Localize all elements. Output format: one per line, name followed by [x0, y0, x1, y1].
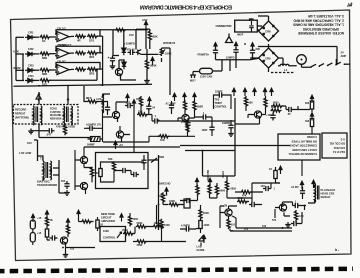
wire row2 stub	[16, 54, 24, 81]
notes block (upside down text, top right)	[293, 14, 344, 35]
wire C34	[187, 118, 189, 131]
svg-text:100K: 100K	[103, 230, 109, 233]
wire stage out	[147, 115, 235, 122]
wire R13 down to ground	[146, 49, 148, 81]
svg-text:ECHOPLEX EP-4 SCHEMATIC DIAGRA: ECHOPLEX EP-4 SCHEMATIC DIAGRAM	[140, 3, 232, 9]
resistor R23	[272, 104, 283, 107]
svg-text:680R: 680R	[197, 106, 203, 109]
svg-text:NEW TONE: NEW TONE	[101, 212, 115, 216]
power arrow G2	[310, 113, 313, 121]
ground G5	[285, 222, 291, 227]
svg-text:500K: 500K	[203, 212, 209, 215]
power arrow +15 E1	[126, 94, 129, 102]
svg-text:47K: 47K	[242, 195, 247, 198]
resistor R12	[148, 30, 151, 41]
power arrow E6	[132, 100, 135, 108]
svg-text:+15MFD: +15MFD	[124, 42, 135, 46]
wire riser 2V AMP	[335, 59, 337, 65]
wire row2 out	[97, 52, 103, 54]
transistor Q11	[80, 182, 87, 189]
svg-text:A4 MV: A4 MV	[291, 186, 299, 189]
transformer T2 right winding	[50, 161, 51, 173]
svg-text:10MFD: 10MFD	[226, 56, 235, 60]
capacitor C18	[120, 168, 128, 173]
feedback box TR3	[214, 95, 232, 109]
svg-text:470-40: 470-40	[127, 48, 136, 52]
wire row3 mid	[33, 69, 39, 71]
resistor R8	[40, 68, 51, 71]
svg-text:152: 152	[129, 33, 134, 37]
svg-text:CR1: CR1	[28, 31, 34, 35]
wire pot down / long vertical	[162, 48, 171, 95]
capacitor C30	[263, 186, 271, 191]
svg-text:68B: 68B	[42, 72, 47, 76]
power arrow J3	[66, 219, 69, 227]
capacitor C3 inside box	[249, 19, 253, 32]
wire risers to divider	[39, 86, 68, 105]
wire verticals from bus	[203, 150, 236, 176]
svg-text:A-2: A-2	[340, 137, 345, 141]
transistor Q6	[182, 114, 189, 121]
resistor R45	[294, 210, 297, 221]
svg-text:OR SIMILAR TYPES: OR SIMILAR TYPES	[291, 139, 317, 143]
node dot on divider	[67, 97, 70, 100]
svg-text:HEAD CR2: HEAD CR2	[321, 192, 335, 196]
power arrow C5c	[251, 43, 254, 51]
bridge rectifier CR9	[259, 48, 279, 68]
relay box K1	[235, 20, 258, 32]
playback head coil	[315, 184, 316, 196]
wire fuse leads	[190, 60, 222, 78]
resistor R13	[145, 59, 148, 70]
svg-text:56K: 56K	[108, 158, 113, 161]
svg-text:250K: 250K	[137, 244, 143, 247]
power arrow G1	[310, 95, 313, 103]
power arrow E2	[173, 93, 176, 101]
capacitor C13	[228, 123, 233, 131]
resistor R31 (boxed)	[45, 229, 48, 237]
svg-text:100K: 100K	[204, 224, 210, 227]
wire I stubs	[163, 193, 184, 205]
resistor R27	[112, 161, 115, 172]
notes box2 text	[329, 137, 345, 154]
svg-text:A1 16MF: A1 16MF	[166, 103, 177, 106]
transistor Q10	[80, 156, 87, 163]
svg-text:4.7K: 4.7K	[13, 50, 19, 54]
svg-text:GUIDE: GUIDE	[197, 249, 205, 252]
resistor R3	[87, 35, 98, 38]
notes box 2 (key)	[322, 133, 347, 158]
power arrow I1	[114, 141, 117, 149]
svg-text:300: 300	[305, 102, 310, 105]
svg-text:REPEAT: REPEAT	[15, 112, 26, 116]
resistor R20	[271, 109, 282, 112]
svg-text:CONTROL: CONTROL	[103, 237, 116, 240]
svg-text:200: 200	[256, 47, 261, 51]
transistor Q12	[60, 237, 67, 244]
motor M1	[297, 55, 307, 65]
wire row4 mid	[33, 79, 39, 81]
svg-text:1.5K 1/2W: 1.5K 1/2W	[19, 151, 32, 155]
resistor R52	[183, 100, 186, 111]
resistor R7	[87, 51, 98, 54]
resistor R37	[136, 225, 147, 228]
svg-text:470MFD+: 470MFD+	[197, 53, 210, 57]
resistor R54	[186, 122, 189, 133]
ground G2	[144, 78, 150, 83]
transformer T1 core	[36, 107, 38, 123]
node bus join	[96, 68, 97, 69]
svg-text:10MFD: 10MFD	[222, 122, 230, 125]
wire R21/R22	[298, 106, 312, 134]
power rail to trap box	[133, 101, 135, 153]
capacitor C9	[152, 118, 160, 123]
wire gnd stub	[31, 129, 39, 131]
film sprocket dashed strip	[0, 269, 353, 271]
ground under C17	[64, 190, 70, 195]
capacitor C16	[300, 188, 305, 196]
capacitor C14	[286, 107, 294, 112]
wire switches to frame	[344, 63, 350, 65]
power arrow I2	[165, 188, 168, 196]
svg-text:68B: 68B	[42, 56, 47, 60]
power arrow G5	[312, 180, 315, 188]
ground G3	[28, 129, 34, 134]
node dot L	[304, 205, 306, 207]
wire below box	[39, 124, 90, 138]
resistor R22 (boxed)	[310, 119, 313, 127]
wire motor to switches	[258, 46, 337, 67]
svg-text:BIAS OSC.: BIAS OSC.	[37, 180, 51, 184]
wire R15	[84, 86, 103, 102]
transformer T2 left winding	[43, 161, 44, 173]
capacitor C17	[64, 181, 69, 189]
transistor Q7	[254, 111, 261, 118]
svg-text:KEY-P A1: KEY-P A1	[332, 150, 345, 154]
svg-text:1R1: 1R1	[89, 38, 95, 42]
wire op-amp U3 output	[71, 68, 74, 70]
transistor Q8	[225, 209, 232, 216]
wire cap bus	[216, 55, 260, 71]
wire bus rows	[180, 146, 290, 151]
resistor R15	[87, 100, 98, 103]
svg-text:10K: 10K	[160, 138, 165, 142]
capacitor C19	[131, 172, 139, 177]
potentiometer VR1	[160, 48, 165, 56]
resistor R51	[139, 96, 142, 107]
power arrow C4a	[214, 43, 217, 51]
svg-text:CONNECTOR JACKS: CONNECTOR JACKS	[290, 144, 317, 148]
wire vertical bus H	[59, 160, 65, 193]
svg-text:6800: 6800	[231, 188, 237, 191]
wire to op-amp U2	[50, 53, 56, 55]
resistor R49	[241, 190, 252, 193]
resistor R30	[45, 216, 48, 227]
svg-text:.04: .04	[152, 107, 156, 110]
resistor R17	[159, 135, 170, 138]
svg-text:103: 103	[70, 248, 75, 251]
resistor R19	[264, 97, 267, 108]
pot arrow component	[199, 235, 204, 246]
svg-text:160P: 160P	[202, 129, 208, 132]
svg-text:150: 150	[158, 195, 163, 198]
svg-text:572: 572	[272, 219, 277, 222]
electrolytic C23 (pill)	[30, 233, 35, 243]
wire R12	[146, 29, 150, 49]
svg-text:MO?: MO?	[190, 79, 196, 83]
capacitor C15	[270, 113, 275, 121]
page corner mark (top right)	[347, 3, 352, 6]
resistor R14	[63, 124, 66, 135]
transformer T1b left winding	[64, 106, 65, 118]
svg-text:CR8: CR8	[265, 30, 271, 34]
switch slash	[151, 158, 157, 163]
wire M stubs	[180, 183, 217, 201]
power arrow J4	[77, 210, 80, 218]
capacitor C5	[233, 47, 238, 55]
feedback loop row3	[56, 63, 100, 70]
svg-text:.05: .05	[287, 113, 291, 116]
power arrow F3	[253, 88, 256, 96]
wire trap internals	[101, 155, 159, 182]
svg-text:CONNECTOR: CONNECTOR	[216, 24, 232, 28]
test triangle TP1	[226, 34, 233, 43]
svg-text:SHIELD: SHIELD	[321, 195, 331, 199]
resistor R36	[123, 232, 134, 235]
resistor R32	[66, 224, 69, 235]
svg-text:AMPLIFIER: AMPLIFIER	[101, 219, 115, 223]
transformer T2 core	[46, 162, 48, 178]
marker arrow on riser	[38, 92, 41, 95]
power arrow F5	[270, 88, 273, 96]
svg-text:160-0941: 160-0941	[333, 146, 345, 150]
svg-text:100K: 100K	[164, 224, 170, 227]
wire Q5	[120, 126, 130, 142]
resistor R2	[75, 35, 86, 38]
transformer T1 right winding	[41, 106, 42, 118]
capacitor C21 (box style)	[184, 199, 190, 208]
svg-text:L1: L1	[284, 68, 288, 72]
resistor R41	[199, 209, 202, 220]
capacitor C10	[169, 103, 174, 111]
transformer T1 left winding	[33, 106, 34, 118]
wire row2 mid	[33, 53, 39, 55]
svg-text:500: 500	[61, 180, 66, 183]
capacitor C29	[184, 198, 192, 203]
wire Q2 collectors	[113, 56, 136, 81]
wire bus drops	[113, 29, 146, 56]
resistor R53	[193, 100, 196, 111]
resistor R25	[90, 167, 93, 178]
svg-text:390K: 390K	[150, 64, 157, 68]
wire pills	[32, 229, 34, 245]
op-amp U2	[55, 48, 71, 58]
dashed enclosure	[14, 105, 79, 125]
capacitor C5b	[250, 48, 255, 56]
svg-text:4.7K: 4.7K	[96, 97, 102, 101]
svg-text:4.7MFD: 4.7MFD	[181, 225, 190, 228]
wire L2 net	[220, 202, 292, 232]
wire row1 mid	[33, 36, 39, 38]
svg-text:4700 NOT USED: 4700 NOT USED	[56, 126, 75, 129]
svg-text:3R2: 3R2	[89, 55, 95, 59]
marker triangle A	[36, 94, 41, 101]
wire J right	[79, 217, 98, 231]
capacitor C11 220PF loop	[217, 92, 225, 97]
svg-text:100K: 100K	[169, 200, 175, 203]
resistor R44	[237, 200, 248, 203]
svg-text:b -: b -	[335, 248, 339, 252]
diode CR4	[25, 78, 35, 82]
power arrow J1	[31, 214, 34, 222]
motor dot	[301, 59, 303, 61]
svg-text:1K: 1K	[42, 39, 46, 43]
wire C7 area	[103, 102, 108, 116]
svg-text:RECORD: RECORD	[15, 108, 26, 112]
capacitor C25	[184, 226, 192, 231]
svg-text:40HM: 40HM	[13, 66, 21, 70]
svg-text:6800: 6800	[273, 102, 279, 105]
wire down to T2	[34, 140, 38, 161]
wire Q12 emitter to ground	[66, 244, 96, 254]
svg-text:1K: 1K	[269, 168, 272, 171]
wire bottom row	[103, 136, 195, 142]
svg-text:453: 453	[136, 98, 141, 101]
svg-text:+15: +15	[37, 232, 42, 235]
svg-text:2003: 2003	[181, 121, 187, 124]
power arrow +15V	[144, 21, 147, 29]
resistor R26 (boxed)	[99, 169, 102, 177]
resistor R9	[75, 68, 86, 71]
resistor R46	[196, 185, 199, 196]
transistor Q5	[116, 131, 123, 138]
wire M right	[227, 176, 280, 203]
svg-text:A5V: A5V	[142, 18, 148, 22]
svg-text:470: 470	[244, 228, 249, 231]
transistor Q4	[112, 111, 119, 118]
capacitor C7	[105, 105, 110, 113]
playback head core	[318, 186, 319, 200]
resistor R24 (boxed)	[274, 171, 277, 179]
svg-text:CR4: CR4	[28, 74, 34, 78]
wire K net	[123, 213, 186, 243]
svg-text:SW1: SW1	[159, 156, 165, 159]
ground G4	[63, 252, 69, 257]
inductor L2	[103, 94, 104, 106]
resistor R43	[227, 218, 230, 229]
power arrow J2	[45, 211, 48, 219]
resistor R16	[137, 113, 148, 116]
svg-text:3R3: 3R3	[89, 71, 95, 75]
electrolytic C22 (pill)	[30, 220, 35, 229]
svg-text:CRAFT A3M AUDIO: CRAFT A3M AUDIO	[292, 148, 317, 152]
capacitor C4	[213, 48, 218, 56]
svg-text:82K: 82K	[153, 35, 158, 39]
trap box	[96, 153, 149, 189]
svg-text:250K: 250K	[122, 229, 128, 232]
svg-text:101: 101	[231, 224, 236, 227]
svg-text:SYNC: SYNC	[221, 171, 224, 178]
resistor R34 (boxed)	[96, 220, 99, 228]
notes box1 text	[288, 135, 317, 156]
svg-text:115V CAB: 115V CAB	[200, 75, 212, 79]
capacitor C20	[141, 158, 146, 166]
resistor R29	[169, 203, 180, 206]
resistor R50	[225, 180, 228, 191]
resistor R38	[153, 225, 164, 228]
svg-text:CIRCUIT: CIRCUIT	[101, 216, 112, 220]
resistor R4 top right of row1	[115, 28, 126, 31]
svg-text:302: 302	[305, 120, 310, 123]
resistor R42 (boxed)	[199, 221, 202, 229]
power arrow C5a	[234, 42, 237, 50]
switch node dots	[311, 66, 313, 68]
wire op-amp U2 output	[71, 52, 74, 54]
wire L1 stubs	[180, 205, 201, 233]
power arrow B2	[151, 57, 154, 65]
wire row1 out long	[97, 30, 148, 85]
wire T2 leads	[38, 156, 60, 181]
capacitor C1	[128, 50, 136, 55]
capacitor C24	[50, 235, 58, 240]
arrow marker L	[202, 235, 205, 243]
svg-text:680: 680	[249, 102, 254, 105]
svg-text:103: 103	[262, 225, 267, 228]
transistor Q1 (bare)	[136, 50, 142, 56]
wire to op-amp U3	[50, 69, 56, 71]
svg-text:.047: .047	[46, 133, 52, 137]
svg-text:RECORD: RECORD	[206, 170, 209, 181]
svg-text:5600: 5600	[220, 190, 226, 193]
pot wiper arrow	[117, 232, 122, 238]
power arrow E4	[193, 93, 196, 101]
op-amp U1	[55, 32, 71, 42]
resistor R40	[160, 219, 163, 230]
capacitor C32	[87, 126, 95, 131]
svg-text:CR3: CR3	[28, 64, 34, 68]
resistor R11	[40, 79, 51, 82]
resistor R1	[40, 35, 51, 38]
svg-text:CR9: CR9	[265, 57, 271, 61]
wire to op-amp U1	[50, 36, 56, 38]
wire R24 down	[276, 167, 281, 183]
power arrow E5	[148, 97, 151, 105]
capacitor C8	[125, 103, 133, 108]
wire E5	[141, 96, 149, 114]
svg-text:100: 100	[27, 141, 32, 145]
wire left input bus	[15, 37, 17, 81]
notes box 1 (jacks)	[278, 134, 320, 160]
svg-text:4R: 4R	[77, 39, 81, 43]
svg-text:+15: +15	[119, 143, 124, 147]
wire row4 stub	[16, 80, 24, 82]
power arrow F2	[243, 88, 246, 96]
wire long vertical	[234, 98, 236, 165]
power arrow F1	[232, 88, 235, 96]
power arrow M1	[195, 178, 198, 186]
resistor R5	[40, 52, 51, 55]
power arrow G3	[279, 166, 282, 174]
choke hatched	[91, 137, 101, 142]
capacitor C31	[146, 104, 151, 112]
wire stubs F	[212, 117, 260, 136]
wire Q1 to pot	[142, 53, 158, 55]
svg-text:TRANSFORMER: TRANSFORMER	[37, 183, 57, 187]
wire row4 out	[50, 69, 97, 80]
transistor Q2	[115, 68, 122, 75]
resistor R47	[208, 184, 211, 195]
svg-text:MFS: MFS	[86, 96, 92, 100]
